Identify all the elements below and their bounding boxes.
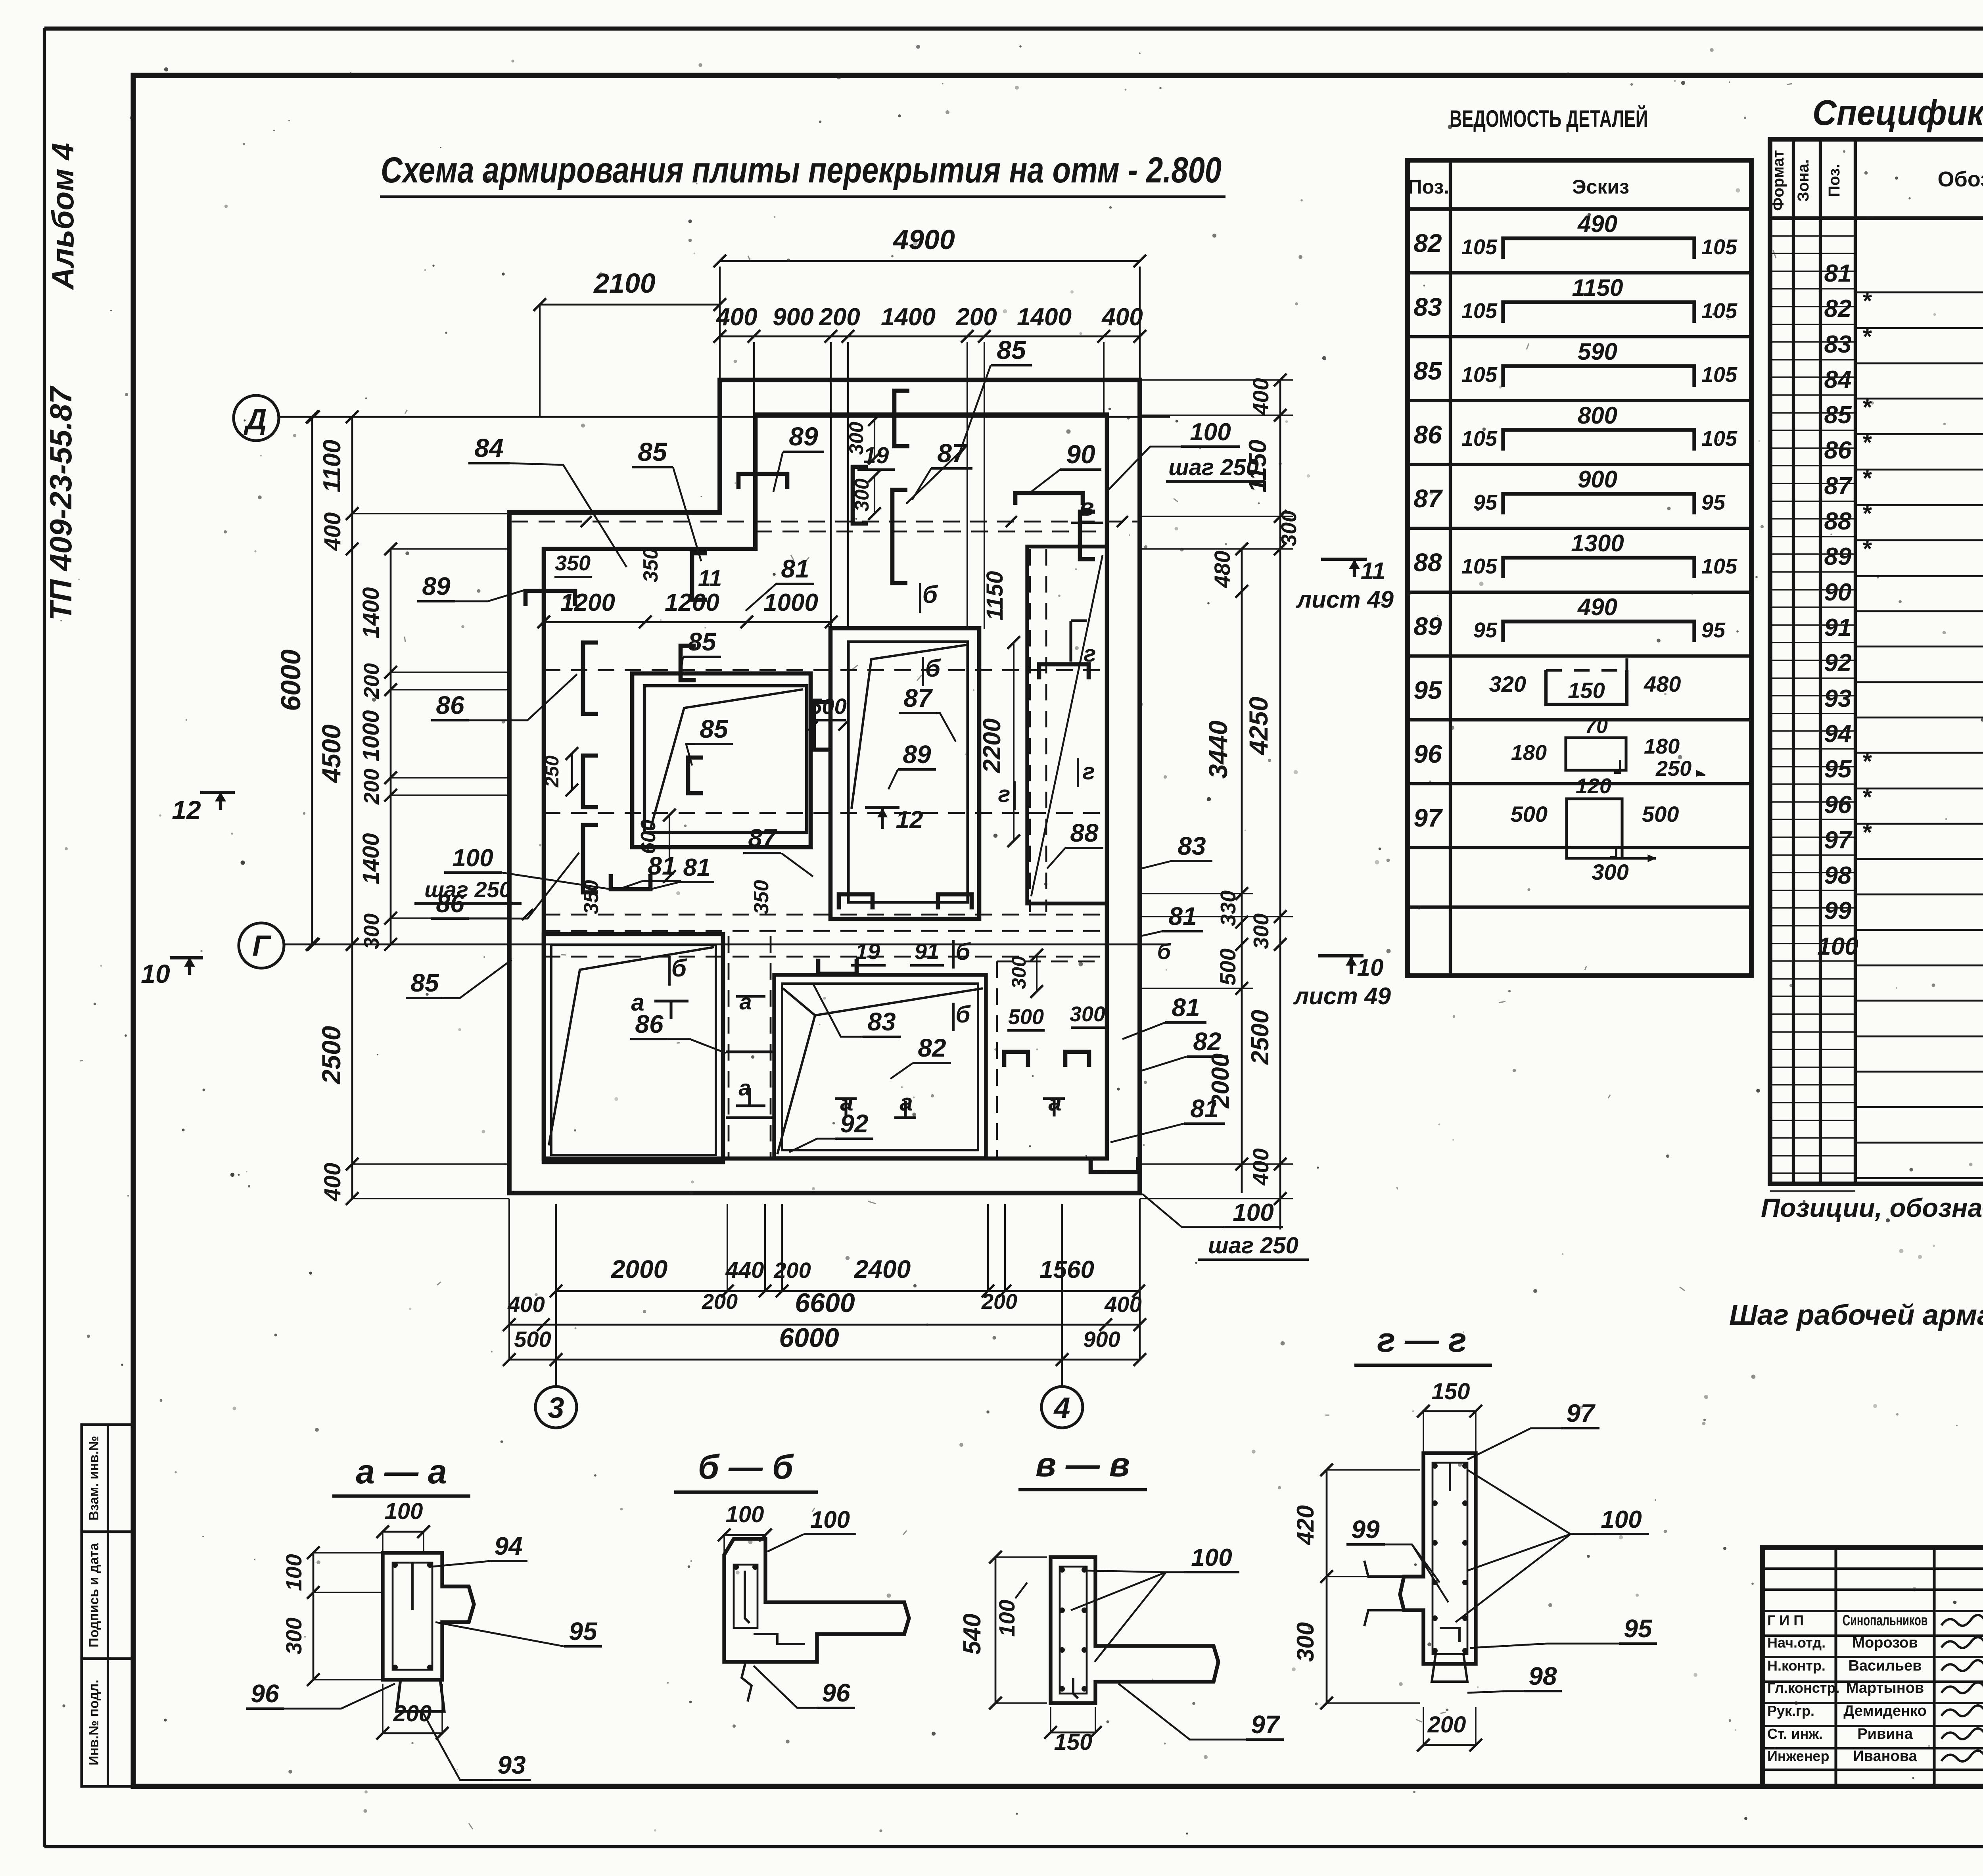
svg-text:200: 200 — [981, 1290, 1017, 1314]
svg-text:500: 500 — [1511, 802, 1548, 827]
svg-text:85: 85 — [410, 969, 439, 997]
svg-text:Поз.: Поз. — [1826, 164, 1843, 197]
svg-text:Схема армирования плиты перекр: Схема армирования плиты перекрытия на от… — [381, 150, 1222, 190]
svg-text:490: 490 — [1577, 594, 1617, 620]
svg-text:Рук.гр.: Рук.гр. — [1767, 1703, 1814, 1719]
svg-text:86: 86 — [1413, 420, 1442, 449]
svg-text:1560: 1560 — [1039, 1256, 1094, 1283]
svg-text:Обозначение: Обозначение — [1937, 167, 1983, 191]
svg-text:500: 500 — [514, 1327, 551, 1352]
svg-text:Синопальников: Синопальников — [1843, 1612, 1928, 1629]
svg-text:89: 89 — [1824, 543, 1852, 570]
svg-text:4500: 4500 — [316, 724, 346, 783]
svg-text:95: 95 — [1824, 756, 1852, 783]
svg-text:1200: 1200 — [560, 589, 615, 616]
svg-text:105: 105 — [1701, 299, 1738, 323]
svg-text:105: 105 — [1701, 363, 1738, 387]
svg-text:84: 84 — [474, 433, 503, 462]
svg-text:1000: 1000 — [358, 710, 384, 761]
svg-text:300: 300 — [1292, 1622, 1319, 1662]
svg-text:2200: 2200 — [978, 718, 1006, 773]
svg-text:97: 97 — [1413, 804, 1443, 832]
svg-text:105: 105 — [1701, 554, 1738, 578]
svg-text:95: 95 — [1701, 618, 1726, 642]
svg-text:84: 84 — [1824, 366, 1852, 393]
svg-text:500: 500 — [809, 694, 846, 719]
svg-text:4: 4 — [1053, 1391, 1070, 1424]
svg-text:89: 89 — [903, 740, 931, 769]
svg-text:100: 100 — [1190, 418, 1231, 446]
svg-text:100: 100 — [385, 1498, 423, 1524]
svg-text:2400: 2400 — [854, 1255, 911, 1283]
svg-text:540: 540 — [959, 1613, 986, 1654]
svg-text:4250: 4250 — [1244, 696, 1273, 756]
svg-text:180: 180 — [1511, 741, 1547, 765]
svg-text:Подпись и дата: Подпись и дата — [86, 1542, 102, 1648]
svg-text:150: 150 — [1432, 1379, 1470, 1404]
svg-text:95: 95 — [569, 1617, 598, 1646]
svg-text:6000: 6000 — [275, 649, 306, 711]
svg-text:350: 350 — [639, 548, 662, 583]
svg-text:200: 200 — [393, 1701, 432, 1726]
svg-text:100: 100 — [281, 1554, 306, 1591]
svg-text:83: 83 — [1178, 832, 1206, 860]
svg-text:82: 82 — [1824, 295, 1852, 322]
svg-text:*: * — [1862, 288, 1872, 314]
svg-text:81: 81 — [781, 554, 809, 583]
svg-text:11: 11 — [698, 566, 722, 591]
svg-text:Спецификация к плите на отм. -: Спецификация к плите на отм. - 2.800 — [1812, 93, 1983, 133]
svg-text:99: 99 — [1824, 897, 1852, 925]
svg-text:ВЕДОМОСТЬ ДЕТАЛЕЙ: ВЕДОМОСТЬ ДЕТАЛЕЙ — [1450, 106, 1648, 132]
svg-text:93: 93 — [1824, 685, 1852, 712]
svg-text:105: 105 — [1701, 235, 1738, 259]
svg-text:90: 90 — [1066, 439, 1095, 469]
svg-text:70: 70 — [1585, 715, 1608, 738]
svg-text:*: * — [1862, 465, 1872, 491]
svg-text:1200: 1200 — [665, 589, 719, 616]
svg-text:800: 800 — [1578, 402, 1617, 429]
svg-text:81: 81 — [683, 854, 711, 881]
svg-text:95: 95 — [1624, 1614, 1653, 1643]
svg-text:300: 300 — [851, 478, 873, 512]
svg-text:250: 250 — [542, 756, 563, 788]
svg-text:900: 900 — [1083, 1327, 1120, 1352]
svg-text:300: 300 — [1249, 913, 1273, 949]
svg-text:б: б — [671, 955, 687, 982]
svg-text:10: 10 — [141, 959, 170, 988]
svg-text:12: 12 — [172, 795, 201, 825]
svg-text:88: 88 — [1413, 548, 1442, 577]
svg-text:3440: 3440 — [1203, 720, 1233, 779]
svg-text:81: 81 — [1172, 993, 1200, 1022]
svg-text:100: 100 — [994, 1600, 1019, 1636]
svg-text:*: * — [1862, 784, 1872, 810]
svg-text:93: 93 — [497, 1751, 525, 1779]
svg-text:Поз.: Поз. — [1408, 176, 1450, 198]
svg-text:300: 300 — [1070, 1002, 1105, 1026]
svg-text:Шаг рабочей арматуры везде —: Шаг рабочей арматуры везде — 200мм — [1729, 1299, 1983, 1331]
svg-text:200: 200 — [360, 769, 384, 805]
svg-text:19: 19 — [855, 939, 880, 964]
svg-text:а — а: а — а — [356, 1453, 447, 1491]
svg-text:Инв.№ подл.: Инв.№ подл. — [86, 1680, 102, 1765]
svg-text:Ривина: Ривина — [1857, 1726, 1913, 1742]
svg-text:87: 87 — [1413, 484, 1443, 513]
svg-text:шаг 250: шаг 250 — [424, 877, 512, 902]
svg-text:*: * — [1862, 500, 1872, 527]
svg-text:лист 49: лист 49 — [1296, 586, 1394, 613]
svg-text:Формат: Формат — [1770, 150, 1787, 211]
svg-text:200: 200 — [819, 303, 860, 331]
svg-text:100: 100 — [810, 1506, 850, 1533]
svg-text:82: 82 — [1193, 1027, 1221, 1056]
svg-text:100: 100 — [1233, 1199, 1273, 1226]
svg-text:1300: 1300 — [1571, 530, 1624, 556]
svg-text:шаг 250: шаг 250 — [1208, 1233, 1298, 1258]
svg-text:*: * — [1862, 394, 1872, 420]
svg-text:400: 400 — [507, 1292, 545, 1317]
svg-text:2100: 2100 — [593, 268, 656, 299]
svg-text:99: 99 — [1351, 1515, 1380, 1544]
svg-text:*: * — [1862, 748, 1872, 775]
svg-text:87: 87 — [903, 684, 933, 712]
svg-text:Д: Д — [243, 403, 267, 435]
svg-text:92: 92 — [1824, 649, 1852, 677]
svg-text:*: * — [1862, 429, 1872, 456]
svg-text:85: 85 — [1413, 357, 1442, 385]
svg-text:105: 105 — [1461, 427, 1498, 451]
svg-text:250: 250 — [1655, 757, 1691, 781]
svg-text:95: 95 — [1701, 491, 1726, 514]
svg-text:480: 480 — [1210, 551, 1235, 588]
svg-text:87: 87 — [748, 824, 778, 852]
svg-text:Н.контр.: Н.контр. — [1767, 1657, 1826, 1674]
svg-text:400: 400 — [320, 1163, 345, 1202]
svg-text:3: 3 — [548, 1391, 564, 1424]
svg-text:400: 400 — [1248, 1148, 1273, 1185]
svg-text:420: 420 — [1292, 1505, 1319, 1545]
svg-text:Г И П: Г И П — [1767, 1612, 1804, 1629]
svg-text:81: 81 — [1168, 902, 1197, 930]
svg-text:Альбом 4: Альбом 4 — [45, 143, 80, 290]
svg-text:81: 81 — [1190, 1094, 1218, 1123]
svg-text:100: 100 — [726, 1502, 764, 1527]
svg-text:2500: 2500 — [316, 1026, 346, 1085]
svg-text:6000: 6000 — [779, 1323, 839, 1353]
svg-text:83: 83 — [1824, 331, 1852, 358]
svg-text:Нач.отд.: Нач.отд. — [1767, 1634, 1826, 1651]
svg-text:Взам. инв.№: Взам. инв.№ — [86, 1436, 102, 1521]
svg-text:300: 300 — [1592, 859, 1628, 884]
svg-text:100: 100 — [1817, 933, 1858, 960]
svg-text:90: 90 — [1824, 579, 1852, 606]
svg-text:96: 96 — [1413, 740, 1442, 768]
svg-text:490: 490 — [1577, 211, 1617, 237]
svg-text:*: * — [1862, 535, 1872, 562]
svg-text:82: 82 — [918, 1034, 946, 1062]
svg-text:440: 440 — [725, 1257, 764, 1283]
svg-text:12: 12 — [896, 806, 923, 834]
svg-text:Мартынов: Мартынов — [1846, 1680, 1924, 1696]
svg-text:б — б: б — б — [698, 1448, 794, 1486]
svg-text:300: 300 — [360, 913, 384, 949]
svg-text:Морозов: Морозов — [1852, 1634, 1918, 1651]
svg-text:180: 180 — [1644, 735, 1680, 758]
svg-text:500: 500 — [1215, 948, 1240, 985]
svg-text:95: 95 — [1473, 618, 1498, 642]
svg-text:*: * — [1862, 819, 1872, 846]
svg-text:150: 150 — [1054, 1729, 1093, 1755]
svg-text:400: 400 — [1104, 1292, 1141, 1317]
svg-text:Васильев: Васильев — [1848, 1657, 1922, 1674]
svg-text:105: 105 — [1461, 554, 1498, 578]
svg-text:500: 500 — [1008, 1005, 1044, 1029]
svg-text:Зона.: Зона. — [1795, 159, 1812, 201]
svg-text:94: 94 — [494, 1532, 522, 1560]
svg-text:91: 91 — [1824, 614, 1852, 641]
svg-text:94: 94 — [1824, 720, 1852, 748]
svg-text:г — г: г — г — [1377, 1321, 1467, 1359]
svg-text:86: 86 — [635, 1010, 664, 1038]
svg-text:1150: 1150 — [982, 571, 1008, 621]
svg-text:87: 87 — [1824, 472, 1853, 500]
svg-text:1100: 1100 — [318, 439, 346, 492]
svg-text:*: * — [1862, 323, 1872, 350]
svg-text:98: 98 — [1824, 862, 1852, 889]
svg-text:6600: 6600 — [795, 1288, 855, 1318]
svg-text:96: 96 — [1824, 791, 1852, 819]
svg-text:300: 300 — [845, 422, 867, 455]
svg-text:330: 330 — [1216, 890, 1240, 926]
svg-text:105: 105 — [1701, 427, 1738, 451]
svg-text:97: 97 — [1824, 827, 1853, 854]
svg-text:97: 97 — [1566, 1399, 1596, 1427]
svg-text:350: 350 — [750, 880, 773, 915]
svg-text:83: 83 — [867, 1007, 896, 1036]
svg-text:85: 85 — [997, 335, 1026, 364]
svg-text:Гл.констр.: Гл.констр. — [1767, 1680, 1839, 1696]
svg-text:200: 200 — [360, 663, 384, 699]
svg-text:1400: 1400 — [1017, 303, 1072, 331]
svg-text:1400: 1400 — [881, 303, 936, 331]
svg-text:б: б — [925, 655, 941, 682]
svg-text:95: 95 — [1413, 676, 1442, 704]
svg-text:85: 85 — [700, 715, 729, 743]
svg-text:ТП 409-23-55.87: ТП 409-23-55.87 — [43, 386, 78, 621]
svg-text:100: 100 — [452, 844, 493, 872]
svg-text:82: 82 — [1413, 229, 1442, 257]
svg-text:200: 200 — [1427, 1712, 1466, 1738]
svg-text:88: 88 — [1824, 508, 1852, 535]
svg-text:11: 11 — [1361, 558, 1385, 584]
svg-text:320: 320 — [1489, 671, 1526, 696]
svg-text:300: 300 — [281, 1617, 306, 1654]
svg-text:1000: 1000 — [763, 589, 818, 616]
svg-text:480: 480 — [1644, 671, 1681, 696]
svg-text:2500: 2500 — [1247, 1010, 1274, 1065]
svg-text:1400: 1400 — [358, 833, 384, 884]
svg-text:86: 86 — [1824, 437, 1852, 464]
svg-text:85: 85 — [688, 627, 717, 656]
svg-text:500: 500 — [1642, 802, 1679, 827]
svg-text:в: в — [1079, 494, 1094, 521]
svg-text:Позиции, обозначенные знаком *: Позиции, обозначенные знаком *, см. ведо… — [1761, 1193, 1983, 1222]
svg-text:Эскиз: Эскиз — [1572, 176, 1629, 198]
svg-text:600: 600 — [637, 820, 660, 854]
svg-text:Инженер: Инженер — [1767, 1748, 1829, 1764]
svg-text:лист 49: лист 49 — [1293, 983, 1391, 1009]
svg-text:б: б — [955, 1001, 971, 1028]
svg-text:85: 85 — [638, 437, 667, 466]
svg-text:400: 400 — [1101, 303, 1143, 331]
svg-text:98: 98 — [1528, 1662, 1557, 1690]
svg-text:200: 200 — [702, 1290, 738, 1314]
svg-text:97: 97 — [1251, 1710, 1281, 1739]
svg-text:б: б — [1157, 939, 1172, 964]
svg-text:1150: 1150 — [1572, 274, 1623, 301]
svg-text:105: 105 — [1461, 363, 1498, 387]
svg-text:г: г — [1083, 759, 1095, 785]
svg-text:81: 81 — [1824, 260, 1852, 287]
svg-text:91: 91 — [915, 939, 939, 964]
svg-text:Г: Г — [252, 929, 272, 962]
svg-text:900: 900 — [1578, 466, 1617, 493]
svg-text:шаг 250: шаг 250 — [1168, 455, 1259, 480]
svg-text:Демиденко: Демиденко — [1843, 1703, 1927, 1719]
svg-text:1400: 1400 — [358, 587, 384, 638]
svg-text:300: 300 — [1008, 956, 1030, 989]
svg-text:10: 10 — [1357, 954, 1384, 981]
svg-text:Ст. инж.: Ст. инж. — [1767, 1726, 1823, 1742]
svg-text:б: б — [922, 581, 938, 608]
svg-text:4900: 4900 — [892, 224, 955, 255]
svg-text:350: 350 — [555, 551, 591, 575]
svg-text:200: 200 — [773, 1258, 811, 1283]
svg-text:г: г — [1084, 641, 1096, 667]
svg-text:89: 89 — [789, 422, 818, 451]
svg-text:105: 105 — [1461, 235, 1498, 259]
svg-text:400: 400 — [320, 512, 345, 551]
svg-text:92: 92 — [840, 1109, 868, 1138]
svg-text:150: 150 — [1568, 678, 1605, 703]
svg-text:100: 100 — [1191, 1544, 1232, 1571]
svg-text:2000: 2000 — [611, 1255, 667, 1283]
svg-text:200: 200 — [955, 303, 997, 331]
svg-text:а: а — [739, 989, 752, 1014]
svg-text:400: 400 — [1248, 378, 1273, 415]
svg-text:88: 88 — [1070, 819, 1099, 847]
svg-text:86: 86 — [436, 691, 464, 719]
svg-text:89: 89 — [422, 572, 451, 600]
svg-text:96: 96 — [251, 1679, 279, 1708]
svg-text:89: 89 — [1413, 612, 1442, 641]
svg-text:83: 83 — [1413, 293, 1442, 321]
svg-text:85: 85 — [1824, 401, 1852, 429]
svg-text:100: 100 — [1601, 1506, 1642, 1533]
svg-text:б: б — [955, 938, 971, 965]
svg-text:в — в: в — в — [1036, 1446, 1130, 1484]
svg-text:120: 120 — [1576, 774, 1611, 798]
svg-text:Иванова: Иванова — [1853, 1748, 1917, 1765]
svg-text:105: 105 — [1461, 299, 1498, 323]
svg-text:81: 81 — [648, 852, 676, 880]
svg-text:590: 590 — [1578, 338, 1617, 365]
svg-text:400: 400 — [715, 303, 757, 331]
svg-text:900: 900 — [773, 303, 813, 331]
svg-text:г: г — [998, 781, 1011, 807]
svg-text:96: 96 — [822, 1678, 850, 1707]
